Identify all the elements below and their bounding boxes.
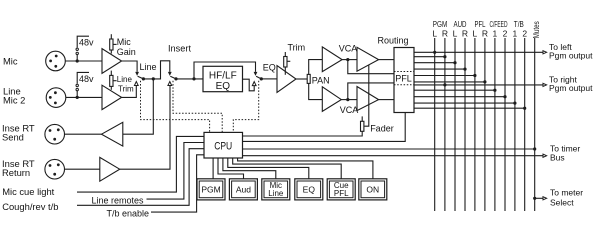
pot Mic Gain [110,34,117,53]
svg-text:HF/LF: HF/LF [209,71,237,82]
arrow to right pgm output [543,83,547,86]
VCA L amplifier [357,47,379,71]
48v phantom switch ch2 [76,72,94,97]
bus PFL R [484,38,486,211]
wire pan to lower buffer [309,83,323,99]
wire SW2 to EQ tap [176,78,203,80]
node PGM L [433,51,436,54]
bus PFL L [474,38,476,211]
svg-text:1: 1 [493,29,498,39]
wire U3 to pan [296,78,307,80]
svg-text:PGM: PGM [201,184,220,194]
op-amp U1 mic preamp [102,49,122,74]
wire return amp to SW2 [120,86,170,170]
control line SW3 to CPU [233,81,258,133]
node meter select tap [533,197,536,200]
wire CPU to ON button [238,158,373,179]
svg-text:Line: Line [117,75,133,84]
wire U2 out to SW1 bottom contact [122,86,137,98]
wire CPU to t/b enable [151,155,204,212]
wire prefade L to routing [348,60,394,74]
wire fader to CPU [243,131,363,136]
svg-text:PAN: PAN [312,76,330,86]
op-amp U4 left buffer [322,47,342,72]
node after SW2 [174,77,177,80]
bus PGM R [444,38,446,211]
wire CPU to timer bus [243,155,544,157]
wire routing to T/B 1 bus [414,102,515,104]
svg-text:PFL: PFL [334,189,349,198]
bus AUD R [464,38,466,211]
svg-text:2: 2 [522,29,527,39]
wire routing to PFL R bus [414,81,485,83]
svg-text:Return: Return [2,167,30,178]
svg-text:Line: Line [140,62,157,72]
wire U4 out to VCA L [342,59,357,61]
svg-text:PFL: PFL [475,19,486,29]
svg-text:VCA: VCA [340,105,359,115]
wire J4 to return amp [65,168,100,170]
switch SW3 EQ in/out [252,72,261,86]
arrow to left pgm output [543,51,547,54]
op-amp U3 channel trim amp [277,66,296,93]
op-amp U5 right buffer [322,87,341,112]
pot Trim [284,52,291,75]
wire mutes to meter select [535,197,544,199]
wire U5 out to VCA R [341,99,357,101]
svg-text:R: R [442,29,448,39]
routing PFL section dashed dividers [394,71,414,73]
svg-text:ON: ON [366,184,379,194]
node after SW1 [142,77,145,80]
bus C/FEED 1 [494,38,496,211]
control line SW2 to CPU [173,81,222,133]
button Mic Line [262,179,290,200]
wire routing to PFL L bus [414,75,475,77]
wire EQ box out to SW3 [243,79,255,91]
svg-text:R: R [462,29,468,39]
wire pan to upper buffer [309,60,323,75]
node AUD L [453,61,456,64]
button EQ [295,179,323,200]
svg-text:Pgm output: Pgm output [549,51,593,61]
svg-text:Line remotes: Line remotes [92,196,145,206]
wire J1 to mic preamp [65,60,102,62]
svg-text:Select: Select [550,198,574,208]
connector XLR J2 Line Mic 2 [46,88,66,108]
svg-text:To meter: To meter [550,188,583,198]
svg-text:Pgm output: Pgm output [549,83,593,93]
wire CPU to EQ button [228,158,309,179]
bus T/B 2 [524,38,526,211]
svg-text:Aud: Aud [236,184,251,194]
node T/B 1 [513,102,516,105]
bus AUD L [454,38,456,211]
svg-text:VCA: VCA [339,43,358,53]
wire CPU to Aud button [218,158,244,179]
op-amp U7 insert return amp [100,157,120,181]
connector XLR J4 insert return [45,159,65,179]
wire CPU to cough/rev t/b [77,149,204,206]
svg-text:Trim: Trim [288,43,306,53]
box Routing [394,48,414,113]
arrow to timer bus [543,154,547,157]
wire routing to T/B 2 bus [414,107,525,109]
wire routing to C/FEED 2 bus [414,96,505,98]
wire CPU to line remotes [147,143,205,200]
box CPU [204,132,243,158]
wire routing to PGM R bus [414,56,445,58]
wire CPU to routing control [243,113,406,142]
svg-text:EQ: EQ [216,81,231,92]
node mutes junction [533,147,536,150]
svg-text:Mic: Mic [117,37,131,47]
svg-text:1: 1 [513,29,518,39]
svg-text:AUD: AUD [454,19,467,29]
junction phantom ch1 [76,59,79,62]
button ON [359,179,387,200]
wire routing to AUD L bus [414,62,455,64]
node C/FEED 2 [503,95,506,98]
wire U1 out to SW1 top contact [122,61,138,72]
node right pgm tap [443,83,446,86]
wire CPU to PGM button [212,158,214,179]
svg-text:Insert: Insert [168,44,192,54]
wire SW1 to insert hop [143,61,169,79]
svg-text:Bus: Bus [550,152,565,162]
wire PGM R bus to right pgm output [414,84,543,86]
svg-text:T/B: T/B [514,19,524,29]
node PFL L [473,74,476,77]
svg-text:Routing: Routing [378,36,409,46]
connector XLR J3 insert send [45,124,65,144]
svg-text:Line: Line [268,189,284,198]
VCA R amplifier [357,87,379,111]
svg-text:Mic: Mic [3,56,18,67]
svg-text:R: R [482,29,488,39]
bus T/B 1 [514,38,516,211]
button Aud [229,179,257,200]
wire prefade R to routing [348,83,394,100]
wire VCA L out to routing [379,59,394,61]
svg-text:CPU: CPU [214,141,232,153]
svg-text:L: L [453,29,458,39]
svg-text:Send: Send [2,132,24,143]
svg-text:Mic 2: Mic 2 [3,95,25,106]
switch SW2 insert in/out [168,72,176,86]
svg-text:48v: 48v [79,74,94,84]
connector XLR J1 Mic [46,51,66,71]
svg-text:Fader: Fader [370,124,394,134]
node after SW3 [260,77,263,80]
op-amp U6 insert send driver [102,122,123,146]
op-amp U2 line preamp [102,85,122,109]
node insert send tap [152,77,155,80]
node prefade L tap [346,58,349,61]
bus C/FEED 2 [504,38,506,211]
fader CV line through VCAs [365,65,369,126]
node PGM R [443,55,446,58]
svg-text:L: L [432,29,437,39]
bus PGM L [434,38,436,211]
node PFL R [483,80,486,83]
node T/B 2 [523,107,526,110]
svg-text:PGM: PGM [433,19,448,29]
junction phantom ch2 [76,96,79,99]
control line SW1 to CPU [141,81,210,133]
svg-text:Trim: Trim [118,85,134,94]
wire routing to C/FEED 1 bus [414,89,495,91]
svg-text:2: 2 [503,29,508,39]
svg-text:EQ: EQ [303,184,316,194]
svg-text:Mutes: Mutes [531,21,541,38]
button PGM [197,179,225,200]
node AUD R [463,68,466,71]
pot Fader [361,116,364,131]
wire CPU to mic cue light [77,136,204,192]
48v phantom switch ch1 [76,36,94,61]
wire J2 to line preamp [66,96,102,98]
svg-text:T/b enable: T/b enable [107,209,150,219]
node C/FEED 1 [493,89,496,92]
svg-text:Cough/rev t/b: Cough/rev t/b [2,201,58,212]
wire routing to AUD R bus [414,68,465,70]
wire SW3 to trim amp [261,78,277,80]
svg-text:C/FEED: C/FEED [490,19,508,29]
wire J3 to send amp [65,133,102,135]
node prefade R tap [346,98,349,101]
wire CPU to Cue PFL button [233,158,342,179]
wire EQ bypass over box [194,62,256,79]
wire CPU to Mic Line button [223,158,276,179]
pot PAN [307,74,310,83]
wire CPU to mutes bus [243,148,535,150]
bus Mutes [534,38,536,211]
button Cue PFL [327,179,355,200]
pot Line Trim [110,71,117,90]
wire send tap down to send amp [123,79,154,134]
svg-text:Gain: Gain [117,47,136,57]
wire routing to PGM L bus and left pgm output [414,51,543,53]
svg-text:48v: 48v [79,38,94,48]
svg-text:PFL: PFL [395,74,412,84]
svg-text:Mic cue light: Mic cue light [2,186,54,197]
svg-text:EQ: EQ [263,63,276,73]
wire VCA R out to routing [379,99,394,101]
svg-text:L: L [473,29,478,39]
arrow to meter select [543,197,547,200]
switch SW1 mic/line select [134,72,143,86]
box HF/LF EQ [203,66,243,91]
node EQ bypass tap [192,77,195,80]
